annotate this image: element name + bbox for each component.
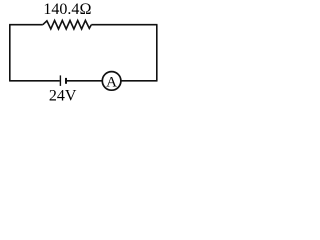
wire: bottom-left segment (left wall to battery) bbox=[9, 80, 60, 82]
resistor R (140.4Ω) zigzag bbox=[43, 20, 92, 29]
wire: battery to ammeter segment bbox=[67, 80, 103, 82]
wire: top-left horizontal segment bbox=[9, 24, 43, 26]
svg-text:140.4Ω: 140.4Ω bbox=[43, 1, 91, 18]
ammeter A: circle body bbox=[102, 72, 121, 91]
svg-text:24V: 24V bbox=[49, 88, 77, 105]
battery cell 24V: long positive plate bbox=[59, 75, 61, 86]
wire: left vertical side bbox=[9, 25, 11, 81]
wire: top-right horizontal segment bbox=[91, 24, 157, 26]
wire: ammeter to right wall segment bbox=[121, 80, 158, 82]
wire: right vertical side bbox=[156, 25, 158, 81]
svg-text:A: A bbox=[106, 74, 117, 90]
battery cell 24V: short negative plate bbox=[65, 78, 67, 84]
